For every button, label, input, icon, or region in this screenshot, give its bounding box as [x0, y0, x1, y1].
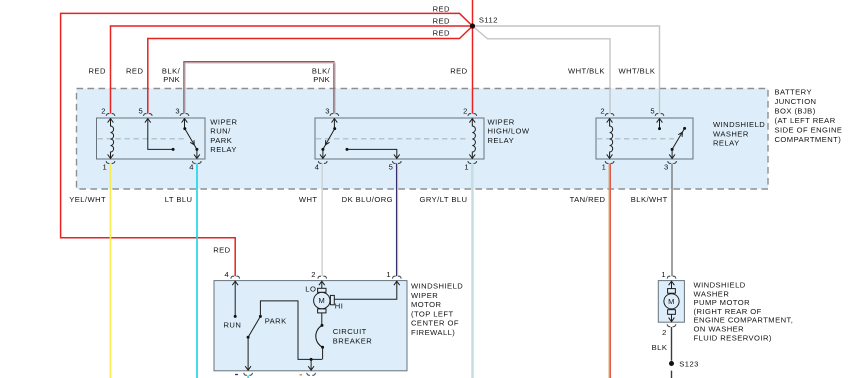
- motor pin 4 lead to RUN contact: [234, 281, 236, 316]
- svg-text:1: 1: [602, 163, 607, 172]
- relay 3 pin brackets: [605, 114, 614, 116]
- wire BLK/PNK between relay pin 3s: [184, 62, 334, 114]
- svg-text:4: 4: [189, 163, 194, 172]
- relay 3 name label: [713, 120, 765, 148]
- svg-text:PARK: PARK: [265, 317, 287, 326]
- relay 2 pin brackets: [330, 114, 339, 116]
- relay 2 pin 4 lead: [322, 149, 324, 158]
- wire WHT relay 2 pin 4 to motor pin 2: [321, 163, 323, 276]
- relay 1 pin 4 lead: [196, 149, 198, 158]
- wire BLK pump pin 2 to S123: [671, 327, 673, 361]
- svg-text:TAN/RED: TAN/RED: [570, 195, 606, 204]
- wire DK BLU/ORG relay 2 pin 5 to motor pin 1: [396, 163, 398, 276]
- relay 3 pin 3 lead: [671, 149, 673, 158]
- svg-text:RED: RED: [433, 29, 450, 38]
- wire RED top branch 2 (to run/park relay pin 2): [111, 26, 473, 114]
- svg-text:COMPARTMENT): COMPARTMENT): [775, 135, 842, 144]
- relay 2 name label: [488, 117, 530, 145]
- relay U1 WIPER RUN/PARK RELAY box: [97, 118, 206, 159]
- svg-text:WIPER: WIPER: [488, 117, 515, 126]
- motor symbol: [321, 281, 323, 288]
- svg-text:5: 5: [389, 163, 394, 172]
- svg-text:HIGH/LOW: HIGH/LOW: [488, 127, 530, 136]
- BJB label: [775, 88, 843, 145]
- svg-text:ON WASHER: ON WASHER: [694, 325, 745, 334]
- svg-text:RUN/: RUN/: [210, 127, 231, 136]
- svg-text:BLK/WHT: BLK/WHT: [631, 195, 668, 204]
- svg-text:(TOP LEFT: (TOP LEFT: [411, 309, 454, 318]
- relay 1 switch arm: [185, 129, 197, 150]
- relay 1 name label: [210, 117, 237, 154]
- relay 1 coil (pin 2 to pin 1): [111, 119, 114, 159]
- svg-text:FIREWALL): FIREWALL): [411, 328, 455, 337]
- svg-text:3: 3: [664, 163, 669, 172]
- svg-text:BOX (BJB): BOX (BJB): [775, 107, 816, 116]
- relay 2 coil (pin 2 to pin 1): [472, 119, 475, 159]
- svg-text:RUN: RUN: [224, 321, 242, 330]
- svg-text:WINDSHIELD: WINDSHIELD: [713, 120, 765, 129]
- relay U3 WINDSHIELD WASHER RELAY box: [596, 118, 693, 159]
- svg-text:1: 1: [386, 270, 391, 279]
- cut-off pin digit fragments below motor box: [235, 374, 238, 376]
- svg-text:2: 2: [662, 328, 667, 337]
- park contact riser to breaker circuit: [260, 301, 322, 360]
- relay 1 pin 3 lead: [184, 119, 186, 129]
- wire BLK below S123: [671, 371, 673, 378]
- motor bottom pin (breaker side): [310, 358, 313, 361]
- svg-text:RELAY: RELAY: [488, 136, 515, 145]
- svg-text:WHT: WHT: [299, 195, 318, 204]
- svg-text:WINDSHIELD: WINDSHIELD: [694, 281, 746, 290]
- circuit breaker: [321, 313, 323, 326]
- svg-text:YEL/WHT: YEL/WHT: [69, 195, 106, 204]
- washer pump name label: [694, 281, 794, 343]
- wire LT BLU stub below motor park pin (cut off at image edge): [247, 376, 249, 378]
- svg-text:1: 1: [464, 163, 469, 172]
- svg-text:FLUID RESERVOIR): FLUID RESERVOIR): [694, 333, 772, 342]
- svg-text:4: 4: [225, 270, 230, 279]
- wire TAN/RED from washer relay pin 1: [608, 163, 610, 378]
- PARK contact: [259, 315, 262, 318]
- svg-text:CIRCUIT: CIRCUIT: [333, 327, 367, 336]
- relay 3 switch arm: [672, 128, 685, 149]
- motor pin brackets: [231, 276, 240, 278]
- svg-text:2: 2: [463, 106, 468, 115]
- svg-text:PARK: PARK: [210, 136, 232, 145]
- svg-text:4: 4: [315, 163, 320, 172]
- svg-text:M: M: [318, 296, 325, 305]
- relay 3 coil (pin 2 to pin 1): [610, 119, 613, 159]
- battery junction box (BJB) dashed enclosure: [77, 89, 769, 190]
- svg-text:GRY/LT BLU: GRY/LT BLU: [420, 195, 468, 204]
- pump pin brackets: [667, 276, 676, 278]
- svg-text:RED: RED: [213, 246, 230, 255]
- svg-text:2: 2: [600, 106, 605, 115]
- svg-text:LT BLU: LT BLU: [165, 195, 193, 204]
- svg-text:WASHER: WASHER: [694, 289, 730, 298]
- svg-text:S112: S112: [479, 15, 498, 24]
- svg-text:BREAKER: BREAKER: [333, 336, 373, 345]
- svg-text:DK BLU/ORG: DK BLU/ORG: [342, 195, 393, 204]
- svg-text:5: 5: [650, 106, 655, 115]
- relay 3 pin 5 lead: [659, 119, 661, 129]
- svg-text:SIDE OF ENGINE: SIDE OF ENGINE: [775, 126, 843, 135]
- svg-text:WIPER: WIPER: [411, 291, 438, 300]
- svg-text:WIPER: WIPER: [210, 117, 237, 126]
- relay 3 internal dashed divider: [597, 138, 674, 140]
- wire RED battery feed vertical through S112: [472, 0, 474, 114]
- svg-text:RED: RED: [433, 4, 450, 13]
- wire BLK/WHT washer relay pin 3 to pump pin 1: [671, 163, 673, 276]
- washer pump motor M2 box: [658, 281, 684, 323]
- svg-text:ENGINE COMPARTMENT,: ENGINE COMPARTMENT,: [694, 316, 794, 325]
- svg-text:3: 3: [175, 106, 180, 115]
- svg-text:WHT/BLK: WHT/BLK: [618, 66, 655, 75]
- svg-text:WHT/BLK: WHT/BLK: [568, 66, 605, 75]
- svg-text:BLK: BLK: [652, 343, 668, 352]
- svg-text:RED: RED: [126, 66, 143, 75]
- svg-text:5: 5: [139, 106, 144, 115]
- wire LT BLU from relay 1 pin 4: [196, 163, 198, 378]
- wire RED top branch 3 (to run/park relay pin 5): [148, 26, 473, 114]
- svg-text:3: 3: [325, 106, 330, 115]
- svg-text:RED: RED: [450, 66, 467, 75]
- svg-text:RED: RED: [89, 66, 106, 75]
- relay 2 pin 5 contact lead: [346, 148, 349, 151]
- svg-text:HI: HI: [335, 302, 344, 311]
- relay 2 internal dashed divider: [316, 138, 466, 140]
- wire YEL/WHT from relay 1 pin 1: [110, 163, 112, 378]
- svg-text:PNK: PNK: [163, 75, 180, 84]
- svg-text:M: M: [668, 297, 675, 306]
- splice S123: [669, 361, 674, 366]
- svg-text:S123: S123: [679, 359, 699, 368]
- svg-text:1: 1: [661, 270, 666, 279]
- svg-text:JUNCTION: JUNCTION: [775, 97, 817, 106]
- svg-text:BATTERY: BATTERY: [775, 88, 812, 97]
- svg-text:PNK: PNK: [313, 75, 330, 84]
- svg-text:CENTER OF: CENTER OF: [411, 319, 459, 328]
- relay U2 WIPER HIGH/LOW RELAY box: [315, 118, 484, 159]
- svg-text:RELAY: RELAY: [210, 145, 237, 154]
- svg-text:LO: LO: [305, 285, 316, 294]
- splice S112: [470, 23, 475, 28]
- svg-text:(AT LEFT REAR: (AT LEFT REAR: [775, 116, 836, 125]
- wire WHT/BLK to washer relay pin 5: [473, 26, 660, 114]
- svg-text:WINDSHIELD: WINDSHIELD: [411, 282, 463, 291]
- motor pin 1 lead (HI): [334, 281, 397, 299]
- svg-text:PUMP MOTOR: PUMP MOTOR: [694, 298, 751, 307]
- svg-text:(RIGHT REAR OF: (RIGHT REAR OF: [694, 307, 762, 316]
- svg-text:RELAY: RELAY: [713, 139, 740, 148]
- svg-text:2: 2: [311, 270, 316, 279]
- relay 1 internal dashed divider: [98, 138, 187, 140]
- relay 1 pin 5 contact lead: [148, 119, 173, 150]
- park switch arm: [248, 316, 260, 337]
- svg-text:RED: RED: [433, 16, 450, 25]
- svg-text:2: 2: [101, 106, 106, 115]
- wiper motor M1 box: [214, 281, 407, 371]
- relay 2 switch arm: [323, 129, 335, 150]
- svg-text:WASHER: WASHER: [713, 129, 749, 138]
- motor bottom pin (park side): [247, 337, 249, 370]
- wire GRY/LT BLU from relay 2 pin 1: [471, 163, 473, 378]
- svg-text:1: 1: [103, 163, 108, 172]
- wiper motor name label: [411, 282, 463, 338]
- svg-text:MOTOR: MOTOR: [411, 300, 441, 309]
- relay 2 pin 3 lead: [333, 119, 335, 129]
- pump motor symbol: [671, 281, 673, 288]
- wire WHT/BLK to washer relay pin 2: [473, 26, 611, 114]
- relay 1 pin brackets: [106, 114, 115, 116]
- wire RED top branch 1 (to wiper motor pin 4): [61, 13, 473, 276]
